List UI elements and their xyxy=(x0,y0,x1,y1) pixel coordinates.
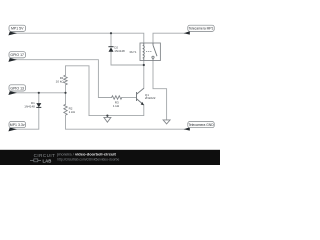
resistor R2 xyxy=(64,104,67,115)
wire R2 top lead xyxy=(65,93,67,105)
ground (relay switch) xyxy=(163,120,170,124)
relay RLY1 box xyxy=(140,43,160,61)
svg-text:LAB: LAB xyxy=(43,158,52,163)
junction node at D2 top xyxy=(110,32,112,34)
relay switch xyxy=(152,43,157,61)
resistor R3 xyxy=(112,96,122,99)
wire GPIO 17 to R3 xyxy=(13,60,112,98)
svg-text:GPIO 17: GPIO 17 xyxy=(10,53,24,57)
svg-text:Telecamera MP1: Telecamera MP1 xyxy=(189,27,214,31)
svg-text:1N4148: 1N4148 xyxy=(114,49,125,53)
wire R3 to base xyxy=(122,97,137,99)
wire emitter ground line xyxy=(89,105,144,116)
wire R1 bottom lead xyxy=(65,85,67,93)
junction node at D1 xyxy=(38,92,40,94)
footer bar xyxy=(0,150,220,165)
junction node at coil bottom xyxy=(143,64,145,66)
svg-text:MP1 3.3v: MP1 3.3v xyxy=(10,123,25,127)
flag Telecamera MP1 xyxy=(184,25,215,34)
diode D2 1N4148 xyxy=(108,47,113,52)
svg-text:RLY1: RLY1 xyxy=(130,50,137,54)
svg-text:2N2222: 2N2222 xyxy=(145,96,156,100)
svg-text:GPIO 13: GPIO 13 xyxy=(10,86,24,90)
ground (emitter) xyxy=(104,116,111,123)
junction node at R1/R2 xyxy=(64,92,66,94)
resistor R1 xyxy=(64,75,67,85)
svg-text:10 kΩ: 10 kΩ xyxy=(56,80,65,84)
junction node at ground line xyxy=(106,115,108,117)
footer CircuitLab logo xyxy=(30,153,55,163)
transistor Q1 2N2222 xyxy=(137,88,144,105)
svg-text:Telecamera GND: Telecamera GND xyxy=(188,123,214,127)
diode D1 1N4148 xyxy=(36,103,41,107)
relay link dashed xyxy=(146,51,151,53)
wire D1 cathode to MP1 3.3v xyxy=(13,107,39,129)
flag MP1 5V xyxy=(8,25,25,35)
flag Telecamera GND xyxy=(184,122,215,131)
wire R1 top loop to ground line xyxy=(66,66,90,116)
wire D2 anode to coil bottom xyxy=(111,52,144,65)
wire coil bottom to collector xyxy=(143,61,145,89)
wire switch common up to Telecamera MP1 xyxy=(153,33,185,43)
wire D1 anode lead xyxy=(38,93,40,103)
wire D2 cathode branch xyxy=(110,33,112,47)
wire MP1 5V rail (top, y=33.2) to relay coil xyxy=(13,33,144,43)
wire relay switch to right ground xyxy=(153,61,167,120)
relay coil xyxy=(143,43,145,61)
flag GPIO 17 xyxy=(8,52,25,62)
svg-text:1 kΩ: 1 kΩ xyxy=(113,104,120,108)
wire GPIO 13 row xyxy=(13,92,66,94)
svg-text:http://circuitlab.com/c/8rnk5e: http://circuitlab.com/c/8rnk5e/video-doo… xyxy=(57,157,119,161)
svg-text:MP1 5V: MP1 5V xyxy=(11,27,24,31)
svg-text:1N4148: 1N4148 xyxy=(24,105,35,109)
wire R2 bottom to Telecamera GND xyxy=(66,115,185,129)
svg-text:1 kΩ: 1 kΩ xyxy=(69,110,76,114)
flag MP1 3.3v xyxy=(8,122,25,132)
flag GPIO 13 xyxy=(8,85,25,95)
svg-text:jmoreira / video-doorbell-circ: jmoreira / video-doorbell-circuit xyxy=(56,152,116,157)
